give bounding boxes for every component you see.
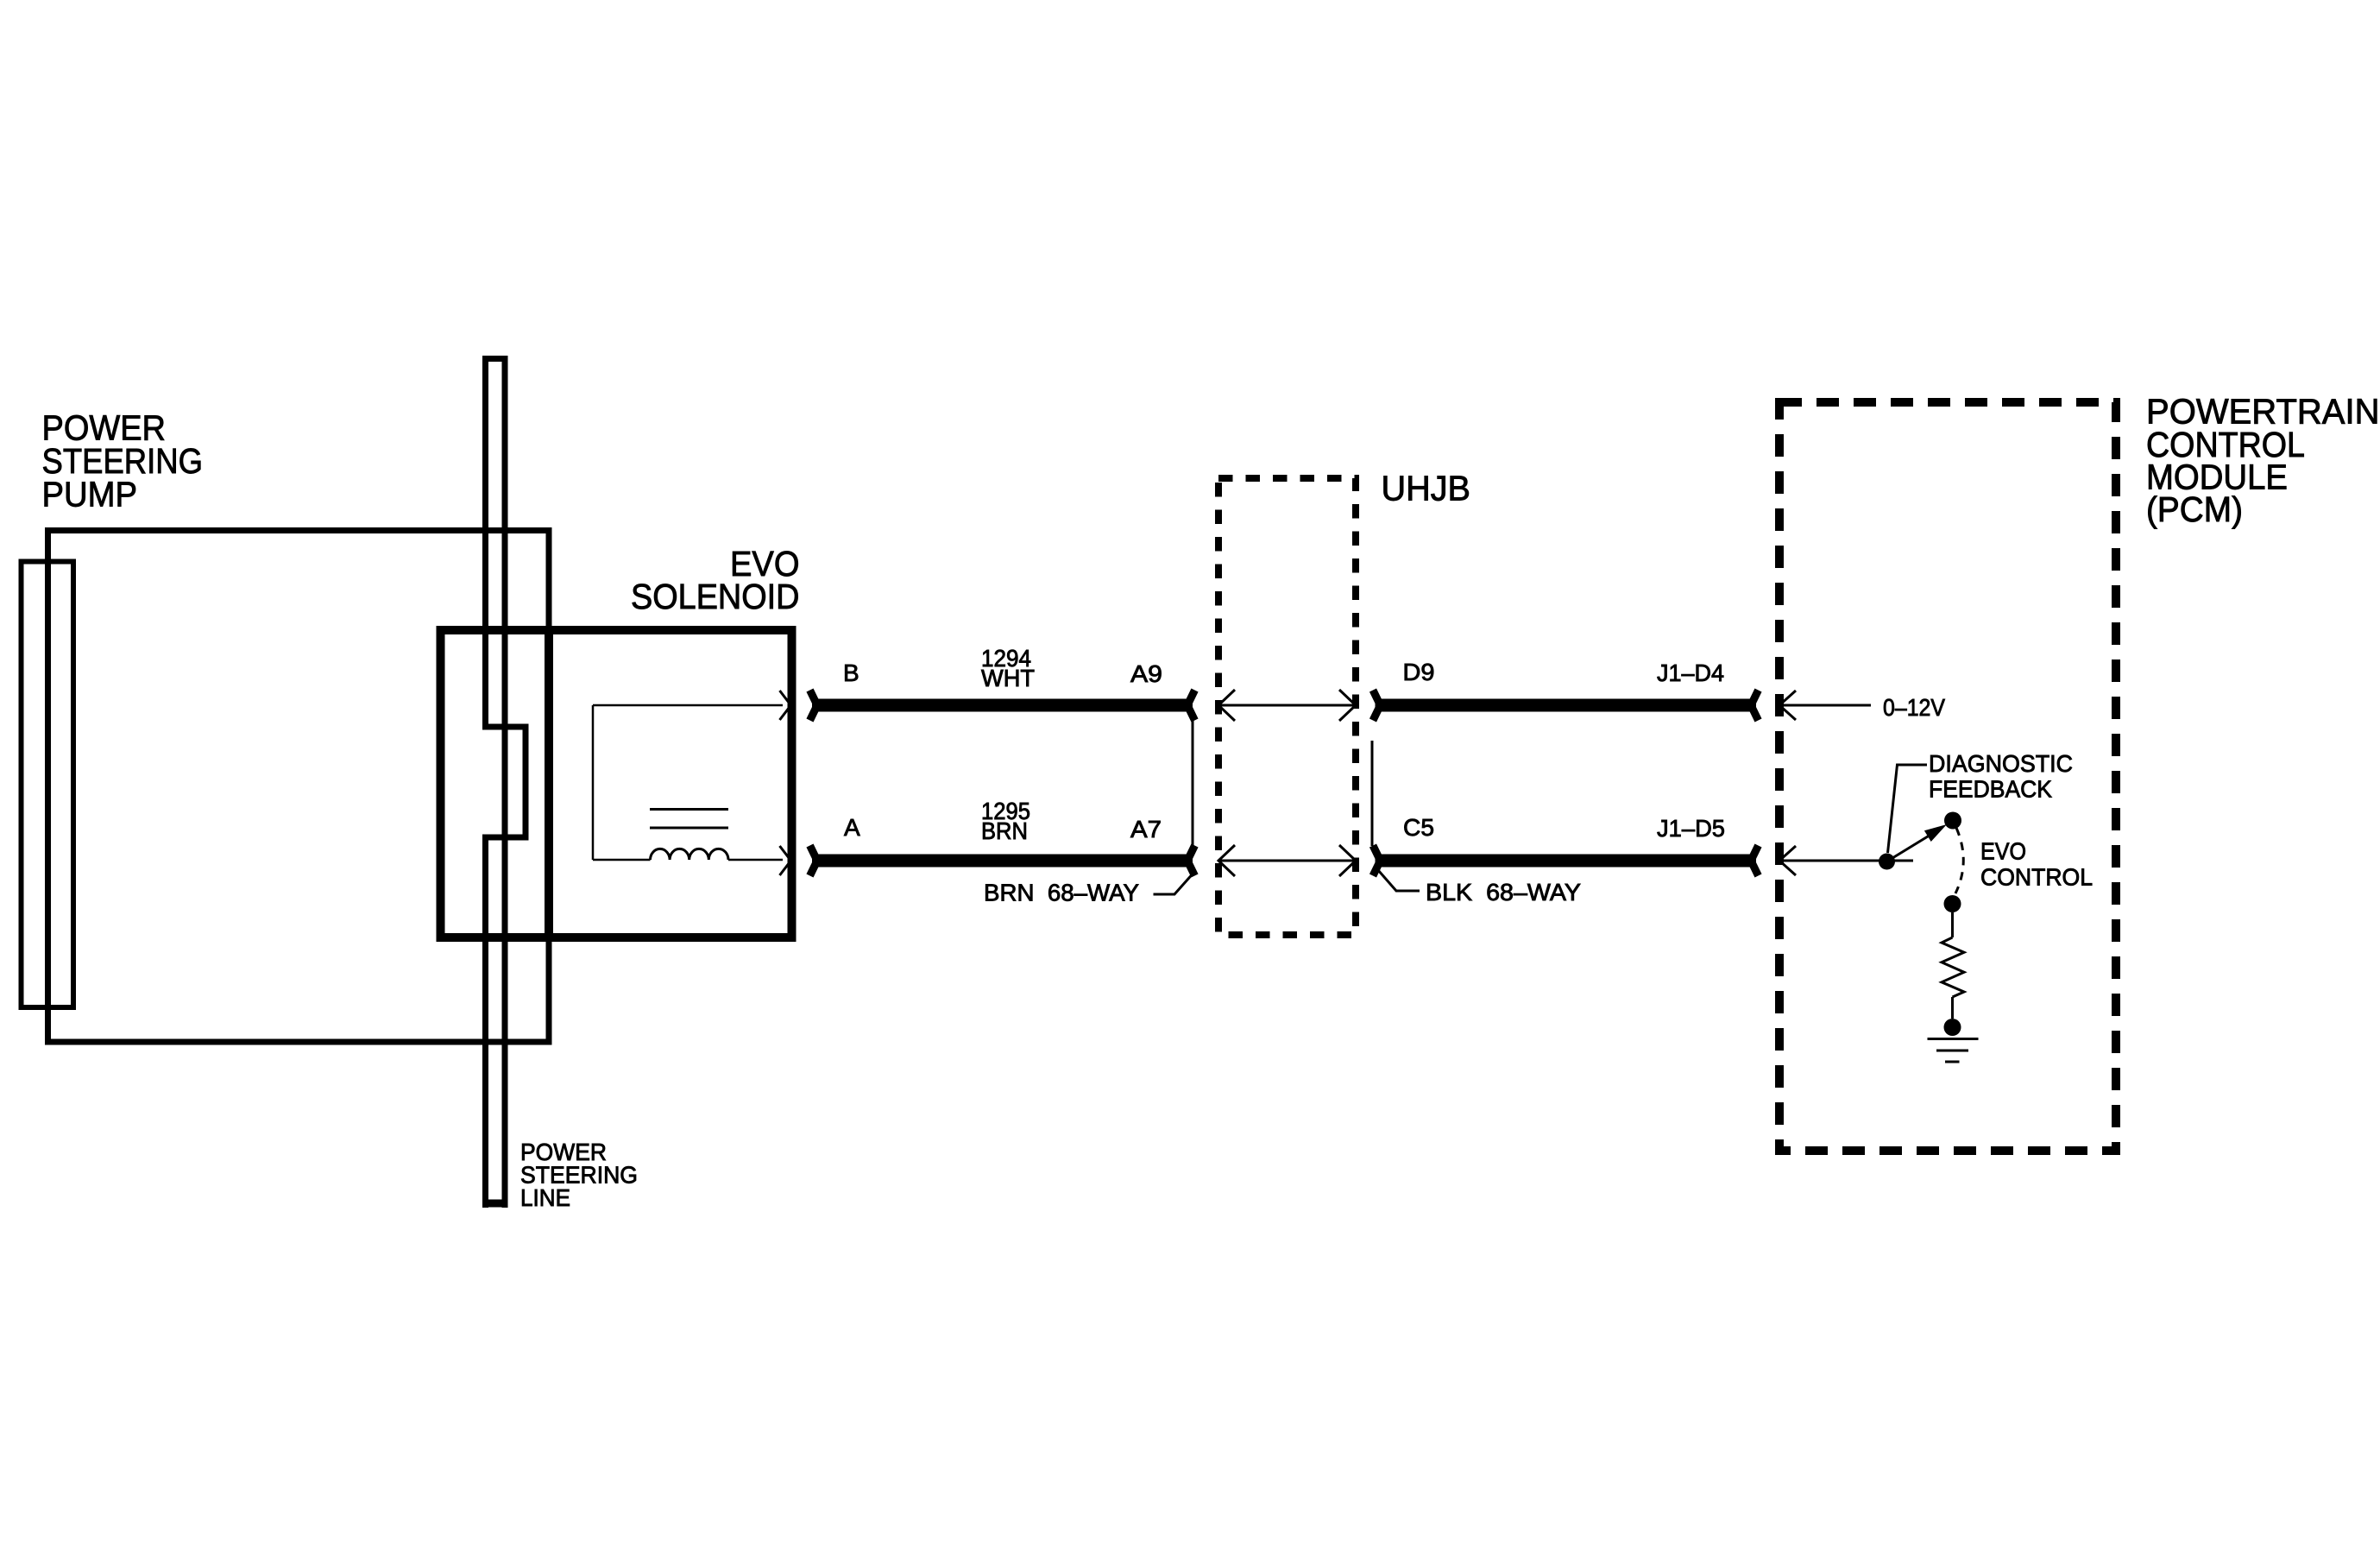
svg-text:DIAGNOSTIC: DIAGNOSTIC — [1929, 750, 2073, 777]
svg-text:A7: A7 — [1130, 816, 1162, 842]
resistor R — [1942, 912, 1964, 1019]
svg-text:A9: A9 — [1130, 660, 1162, 687]
UHJB pass-through arrow A row — [1218, 845, 1356, 876]
wire 1294 WHT (B to A9) — [810, 691, 1195, 721]
svg-text:FEEDBACK: FEEDBACK — [1929, 776, 2052, 803]
svg-text:B: B — [843, 659, 859, 686]
svg-text:UHJB: UHJB — [1382, 469, 1471, 508]
UHJB pass-through arrow B row — [1218, 690, 1356, 721]
solenoid coil circuit — [593, 705, 783, 860]
power steering line label — [520, 1139, 638, 1211]
DIAGNOSTIC FEEDBACK leader — [1888, 765, 1928, 853]
svg-text:A: A — [844, 814, 860, 841]
svg-text:BRN 68–WAY: BRN 68–WAY — [984, 880, 1139, 906]
ground — [1928, 1039, 1979, 1063]
BLK 68-WAY leader — [1378, 870, 1420, 891]
PCM dashed box — [1779, 402, 2116, 1151]
coil — [651, 849, 729, 860]
pin B arrow — [780, 691, 791, 720]
EVO solenoid label — [631, 544, 800, 616]
core lines — [650, 808, 728, 811]
svg-text:CONTROL: CONTROL — [1980, 863, 2093, 890]
BRN 68-WAY connector line — [1192, 721, 1194, 846]
ground node — [1944, 1019, 1961, 1036]
svg-text:C5: C5 — [1403, 814, 1434, 841]
pump outlet connector box — [441, 630, 550, 937]
svg-text:J1–D5: J1–D5 — [1657, 815, 1725, 842]
pin A arrow — [780, 846, 791, 875]
svg-text:0–12V: 0–12V — [1883, 694, 1945, 721]
PCM label — [2146, 392, 2380, 530]
wire C5 to J1-D5 — [1373, 846, 1759, 876]
switch blade arrowhead — [1924, 824, 1947, 842]
BLK 68-WAY connector line — [1371, 741, 1374, 846]
svg-text:SOLENOID: SOLENOID — [631, 577, 800, 616]
upper contact node — [1944, 812, 1961, 830]
svg-text:PUMP: PUMP — [42, 475, 138, 514]
lower contact node — [1944, 895, 1961, 912]
EVO solenoid box — [549, 630, 792, 937]
wire D9 to J1-D4 — [1373, 691, 1759, 721]
switch blade — [1887, 830, 1940, 861]
EVO control input arrow — [1779, 846, 1913, 875]
svg-text:BLK 68–WAY: BLK 68–WAY — [1426, 879, 1581, 906]
svg-text:BRN: BRN — [981, 817, 1028, 844]
svg-text:EVO: EVO — [1980, 837, 2026, 864]
power steering pump label — [42, 408, 204, 514]
switch pivot node — [1879, 854, 1895, 870]
dashed travel arc — [1955, 828, 1963, 893]
svg-text:D9: D9 — [1403, 659, 1435, 685]
power steering pump box — [48, 531, 550, 1043]
pump inlet rectangle — [22, 562, 74, 1008]
UHJB junction block dashed box — [1218, 478, 1356, 935]
wire 1295 BRN (A to A7) — [810, 846, 1195, 876]
power steering line — [482, 356, 529, 1208]
svg-text:WHT: WHT — [981, 665, 1035, 691]
BRN 68-WAY leader — [1154, 875, 1193, 895]
0-12V input arrow — [1779, 691, 1871, 720]
svg-text:J1–D4: J1–D4 — [1657, 659, 1724, 686]
svg-text:LINE: LINE — [520, 1184, 570, 1211]
svg-text:(PCM): (PCM) — [2146, 489, 2243, 529]
